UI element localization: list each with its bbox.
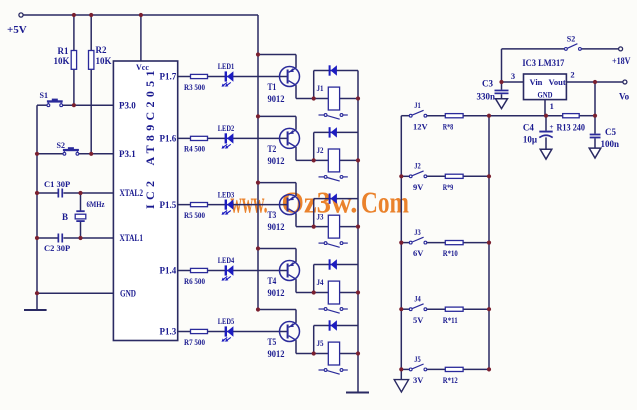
svg-text:9012: 9012 — [268, 222, 285, 232]
svg-text:C1 30P: C1 30P — [44, 179, 70, 189]
svg-text:9012: 9012 — [268, 94, 285, 104]
svg-text:10K: 10K — [96, 56, 112, 66]
svg-text:IC3 LM317: IC3 LM317 — [522, 58, 564, 68]
svg-text:T1: T1 — [268, 82, 277, 92]
svg-text:P1.7: P1.7 — [160, 72, 177, 82]
svg-text:LED1: LED1 — [218, 61, 235, 71]
svg-text:J3: J3 — [317, 211, 324, 221]
svg-text:P1.5: P1.5 — [160, 200, 177, 210]
svg-text:5V: 5V — [413, 315, 424, 325]
svg-text:9012: 9012 — [268, 288, 285, 298]
svg-text:LED4: LED4 — [218, 255, 235, 265]
svg-text:1: 1 — [550, 101, 554, 111]
svg-text:C4: C4 — [523, 123, 534, 133]
svg-text:R4 500: R4 500 — [184, 144, 205, 154]
svg-text:LED5: LED5 — [218, 316, 235, 326]
svg-text:2: 2 — [570, 70, 574, 80]
svg-text:100n: 100n — [601, 139, 620, 149]
svg-text:R2: R2 — [96, 45, 107, 55]
svg-text:XTAL2: XTAL2 — [120, 188, 144, 198]
svg-text:P1.4: P1.4 — [160, 266, 177, 276]
svg-text:AT89C2051: AT89C2051 — [143, 71, 157, 166]
svg-text:J5: J5 — [317, 338, 324, 348]
svg-text:S2: S2 — [57, 141, 65, 150]
svg-text:R*11: R*11 — [443, 315, 458, 325]
svg-text:P1.3: P1.3 — [160, 327, 177, 337]
svg-text:GND: GND — [120, 288, 136, 298]
svg-text:J4: J4 — [317, 277, 325, 287]
svg-text:P3.1: P3.1 — [119, 149, 136, 159]
svg-text:P1.6: P1.6 — [160, 134, 177, 144]
svg-text:9012: 9012 — [268, 349, 285, 359]
svg-text:10K: 10K — [53, 56, 69, 66]
svg-text:R6 500: R6 500 — [184, 276, 205, 286]
svg-text:+5V: +5V — [7, 24, 27, 36]
svg-text:J5: J5 — [414, 355, 421, 364]
svg-text:LED2: LED2 — [218, 123, 235, 133]
svg-text:LED3: LED3 — [218, 189, 235, 199]
svg-text:C3: C3 — [482, 79, 493, 89]
svg-text:R5 500: R5 500 — [184, 210, 205, 220]
svg-text:R*9: R*9 — [443, 182, 454, 192]
svg-text:J2: J2 — [317, 145, 324, 155]
svg-text:Vin: Vin — [530, 77, 543, 87]
svg-text:C5: C5 — [605, 127, 616, 137]
svg-text:T5: T5 — [268, 337, 277, 347]
svg-text:J1: J1 — [414, 101, 421, 110]
svg-text:+18V: +18V — [612, 56, 631, 66]
svg-text:12V: 12V — [413, 121, 429, 131]
svg-text:9V: 9V — [413, 182, 424, 192]
svg-text:R*12: R*12 — [443, 375, 458, 385]
svg-text:R1: R1 — [58, 46, 69, 56]
svg-text:Vo: Vo — [619, 92, 630, 102]
svg-text:6MHz: 6MHz — [87, 199, 105, 209]
svg-text:B: B — [62, 212, 68, 222]
svg-text:T4: T4 — [268, 276, 277, 286]
svg-text:T3: T3 — [268, 210, 277, 220]
svg-text:3V: 3V — [413, 375, 424, 385]
svg-text:J3: J3 — [414, 228, 421, 237]
svg-text:J4: J4 — [414, 295, 421, 304]
svg-text:GND: GND — [538, 90, 553, 100]
svg-text:3: 3 — [511, 71, 515, 81]
svg-text:C2 30P: C2 30P — [44, 243, 70, 253]
svg-text:R*8: R*8 — [443, 121, 454, 131]
svg-text:J1: J1 — [317, 83, 324, 93]
svg-text:S1: S1 — [40, 91, 48, 100]
svg-text:XTAL1: XTAL1 — [120, 233, 144, 243]
svg-text:P3.0: P3.0 — [119, 100, 136, 110]
svg-text:R3 500: R3 500 — [184, 82, 205, 92]
svg-text:9012: 9012 — [268, 156, 285, 166]
svg-text:+: + — [550, 123, 554, 131]
svg-text:R13 240: R13 240 — [557, 123, 586, 133]
svg-text:10µ: 10µ — [523, 134, 538, 144]
svg-text:J2: J2 — [414, 162, 421, 171]
svg-text:R*10: R*10 — [443, 248, 458, 258]
svg-text:S2: S2 — [567, 35, 575, 44]
svg-text:Vout: Vout — [549, 77, 566, 87]
svg-text:T2: T2 — [268, 144, 277, 154]
svg-text:6V: 6V — [413, 248, 424, 258]
svg-text:R7 500: R7 500 — [184, 337, 205, 347]
svg-text:www.: www. — [231, 185, 268, 220]
svg-text:IC2: IC2 — [143, 181, 157, 209]
svg-text:330n: 330n — [476, 92, 495, 102]
